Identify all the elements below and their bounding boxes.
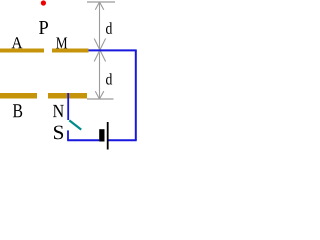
plate B (0, 93, 37, 99)
wire stub below switch (67, 130, 69, 140)
label S (54, 126, 63, 140)
arrowhead up at top reference (95, 2, 99, 10)
dimension reference line bottom (87, 98, 114, 100)
plate A (0, 49, 44, 53)
switch S blade (69, 120, 81, 129)
label A (12, 37, 23, 48)
label d upper (106, 22, 112, 34)
wire from plate N down to switch (67, 93, 69, 120)
charge point P (red dot) (41, 0, 46, 5)
battery negative plate (thick short) (99, 129, 104, 141)
label B (13, 104, 22, 117)
plate M (52, 49, 89, 53)
crossed arrowheads at plate M level (94, 39, 105, 62)
label P (39, 21, 48, 34)
label d lower (106, 73, 112, 84)
wire right vertical (135, 50, 137, 140)
battery positive plate (thin long) (107, 122, 109, 150)
wire bottom right to battery (108, 139, 136, 141)
arrowhead down at plate N (95, 91, 99, 99)
dimension reference line top (87, 1, 115, 3)
label M (56, 37, 67, 48)
dimension arrow shaft upper d (99, 2, 101, 49)
wire battery to switch (67, 139, 99, 141)
dimension arrow shaft lower d (99, 53, 101, 100)
wire top from plate M to right (89, 49, 137, 51)
label N (53, 105, 64, 117)
plate N (48, 93, 87, 99)
